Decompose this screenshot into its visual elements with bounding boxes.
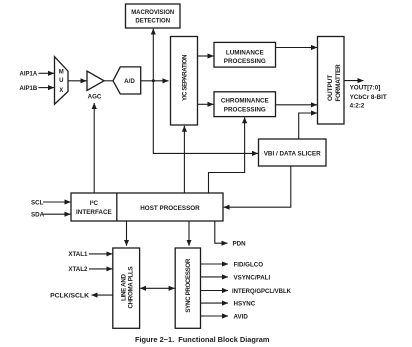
wire chrominance to output formatter: [276, 104, 317, 106]
wire SDA to I2C interface: [43, 213, 71, 215]
svg-text:SCL: SCL: [31, 199, 44, 206]
wire Y/C separation to luminance processing: [198, 55, 214, 57]
svg-text:AIP1A: AIP1A: [20, 72, 38, 78]
svg-text:A/D: A/D: [124, 78, 135, 85]
block MACROVISION DETECTION: [126, 4, 181, 28]
svg-text:CHROMINANCE: CHROMINANCE: [221, 98, 269, 105]
wire sync processor to HSYNC: [201, 302, 229, 304]
wire A/D junction to MACROVISION DETECTION: [152, 29, 154, 81]
wire host processor to line and chroma PLLs: [126, 221, 128, 246]
wire host processor to AGC: [93, 103, 95, 193]
wire sync processor to INTERQ/GPCL/VBLK: [201, 290, 229, 292]
svg-text:PROCESSING: PROCESSING: [224, 107, 266, 114]
svg-text:SYNC PROCESSOR: SYNC PROCESSOR: [185, 258, 192, 312]
wire host processor to Y/C separation: [183, 126, 185, 193]
svg-text:INTERQ/GPCL/VBLK: INTERQ/GPCL/VBLK: [232, 289, 292, 295]
wire Y/C separation to chrominance processing: [198, 103, 214, 105]
wire SCL to I2C interface: [43, 201, 71, 203]
svg-text:XTAL2: XTAL2: [68, 266, 88, 273]
wire A/D to Y/C separation: [141, 80, 169, 82]
svg-text:YOUT[7:0]: YOUT[7:0]: [350, 85, 381, 92]
svg-text:X: X: [59, 88, 63, 94]
mux MUX: [55, 57, 69, 104]
svg-text:PROCESSING: PROCESSING: [224, 58, 266, 65]
svg-text:U: U: [59, 78, 63, 84]
svg-text:AVID: AVID: [234, 313, 249, 320]
block I2C INTERFACE and HOST PROCESSOR: [71, 193, 223, 221]
block CHROMINANCE PROCESSING: [214, 92, 276, 117]
block Y/C SEPARATION: [171, 37, 198, 126]
svg-text:CHROMA PLLS: CHROMA PLLS: [127, 267, 134, 309]
wire VBI data slicer to host processor: [224, 166, 291, 207]
svg-text:LUMINANCE: LUMINANCE: [226, 50, 264, 57]
wire XTAL2 to PLLs: [89, 268, 112, 270]
wire sync processor to AVID: [201, 315, 229, 317]
svg-text:I²C: I²C: [90, 200, 99, 207]
svg-text:VBI / DATA SLICER: VBI / DATA SLICER: [264, 150, 321, 157]
svg-text:AGC: AGC: [88, 94, 102, 101]
block LINE AND CHROMA PLLS: [113, 248, 140, 328]
wire A/D junction to VBI data slicer: [153, 81, 258, 154]
wire MUX to AGC: [68, 80, 87, 82]
wire host processor to chrominance processing: [209, 117, 245, 193]
output label YOUT[7:0] YCbCr 8-BIT 4:2:2: [350, 85, 387, 110]
wire host processor to sync processor: [188, 221, 190, 246]
svg-text:FID/GLCO: FID/GLCO: [234, 261, 264, 268]
wire sync processor to VSYNC/PALI: [201, 276, 229, 278]
svg-text:YCbCr 8-BIT: YCbCr 8-BIT: [350, 94, 387, 101]
block SYNC PROCESSOR: [175, 248, 200, 328]
wire XTAL1 to PLLs: [89, 253, 112, 255]
wire PLLs to PCLK/SCLK: [92, 294, 113, 296]
svg-text:MACROVISION: MACROVISION: [131, 10, 174, 16]
svg-text:PDN: PDN: [233, 241, 247, 248]
wire AIP1A to MUX: [39, 72, 55, 74]
wire host processor to PDN: [215, 221, 228, 243]
wire luminance to output formatter: [276, 47, 317, 49]
svg-text:AIP1B: AIP1B: [20, 86, 38, 92]
svg-text:Figure 2−1. Functional Block: Figure 2−1. Functional Block Diagram: [135, 335, 270, 344]
amplifier AGC: [87, 71, 104, 100]
wire VBI data slicer to output formatter: [299, 113, 317, 139]
svg-text:SDA: SDA: [31, 212, 45, 219]
svg-text:OUTPUT: OUTPUT: [327, 75, 334, 101]
node A/D output junction: [152, 79, 155, 82]
svg-text:M: M: [59, 69, 64, 75]
svg-text:INTERFACE: INTERFACE: [76, 209, 112, 216]
block VBI / DATA SLICER: [259, 139, 327, 166]
svg-text:PCLK/SCLK: PCLK/SCLK: [50, 293, 89, 300]
svg-text:XTAL1: XTAL1: [68, 251, 88, 258]
adc A/D: [113, 67, 141, 94]
block OUTPUT FORMATTER: [318, 37, 345, 125]
svg-text:FORMATTER: FORMATTER: [335, 64, 342, 102]
svg-text:Y/C SEPARATION: Y/C SEPARATION: [182, 54, 189, 101]
wire sync processor to FID/GLCO: [201, 263, 229, 265]
svg-text:HSYNC: HSYNC: [234, 301, 256, 308]
svg-text:HOST PROCESSOR: HOST PROCESSOR: [140, 205, 200, 212]
wire PLLs to sync processor bidirectional: [140, 287, 174, 289]
wire AIP1B to MUX: [39, 87, 55, 89]
wire AGC to A/D: [104, 80, 113, 82]
svg-text:VSYNC/PALI: VSYNC/PALI: [234, 274, 271, 281]
wire output formatter to YOUT: [344, 80, 364, 82]
block LUMINANCE PROCESSING: [214, 42, 276, 67]
svg-text:DETECTION: DETECTION: [135, 19, 170, 25]
svg-text:4:2:2: 4:2:2: [350, 103, 365, 110]
